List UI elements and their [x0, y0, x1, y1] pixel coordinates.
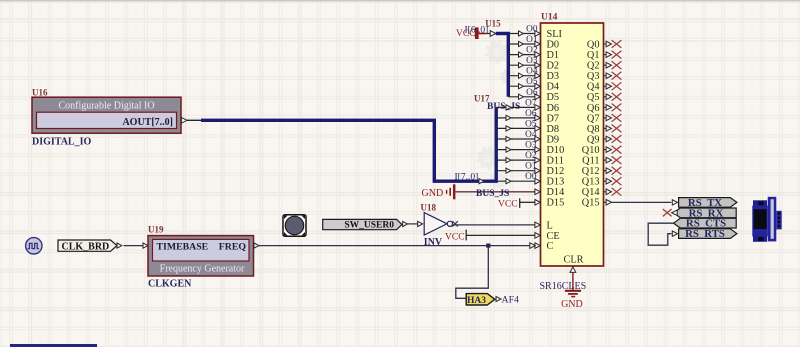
svg-text:D0: D0: [547, 39, 560, 50]
svg-text:Q0: Q0: [587, 39, 600, 50]
svg-text:SLI: SLI: [547, 29, 563, 40]
svg-text:U16: U16: [32, 88, 48, 98]
svg-text:CLK_BRD: CLK_BRD: [62, 241, 110, 252]
svg-text:D4: D4: [547, 82, 560, 93]
svg-text:D13: D13: [547, 177, 565, 188]
svg-text:Q8: Q8: [587, 124, 600, 135]
svg-text:AF4: AF4: [502, 295, 520, 306]
svg-text:Q2: Q2: [587, 61, 600, 72]
svg-text:Q13: Q13: [582, 177, 600, 188]
svg-text:RS_RTS: RS_RTS: [685, 228, 725, 240]
svg-text:D6: D6: [547, 103, 560, 114]
svg-text:C: C: [547, 241, 554, 252]
svg-text:VCC: VCC: [445, 233, 465, 243]
svg-text:D5: D5: [547, 92, 560, 103]
svg-text:D2: D2: [547, 61, 560, 72]
svg-text:GND: GND: [561, 299, 583, 310]
svg-text:D7: D7: [547, 113, 560, 124]
svg-text:D8: D8: [547, 124, 560, 135]
svg-text:D15: D15: [547, 198, 565, 209]
svg-text:CLKGEN: CLKGEN: [148, 279, 192, 290]
svg-text:SW_USER0: SW_USER0: [344, 221, 394, 231]
svg-text:I[6..0]: I[6..0]: [465, 25, 489, 35]
svg-text:U14: U14: [541, 13, 558, 23]
svg-text:Configurable Digital IO: Configurable Digital IO: [58, 100, 154, 111]
svg-text:D10: D10: [547, 145, 565, 156]
svg-text:Q3: Q3: [587, 71, 600, 82]
svg-text:Q4: Q4: [587, 82, 600, 93]
svg-text:VCC: VCC: [498, 200, 518, 210]
svg-text:Q12: Q12: [582, 166, 600, 177]
svg-text:Q1: Q1: [587, 50, 600, 61]
svg-text:HA3: HA3: [467, 296, 486, 306]
svg-text:D3: D3: [547, 71, 560, 82]
svg-text:Q10: Q10: [582, 145, 600, 156]
svg-text:Frequency Generator: Frequency Generator: [160, 264, 245, 275]
svg-text:Q15: Q15: [582, 198, 600, 209]
svg-text:L: L: [547, 220, 553, 231]
svg-text:Q7: Q7: [587, 113, 600, 124]
svg-text:Q14: Q14: [582, 187, 600, 198]
svg-text:Q5: Q5: [587, 92, 600, 103]
svg-text:U18: U18: [421, 203, 437, 213]
svg-text:D12: D12: [547, 166, 565, 177]
svg-text:Q11: Q11: [582, 156, 599, 167]
svg-text:U19: U19: [148, 225, 164, 235]
svg-text:GND: GND: [422, 188, 444, 199]
svg-text:BUS_JS: BUS_JS: [476, 189, 509, 199]
svg-text:DIGITAL_IO: DIGITAL_IO: [32, 136, 91, 147]
svg-text:TIMEBASE: TIMEBASE: [157, 241, 209, 252]
svg-text:I[7..0]: I[7..0]: [455, 172, 479, 182]
svg-text:D9: D9: [547, 134, 560, 145]
svg-text:Q9: Q9: [587, 134, 600, 145]
svg-text:D1: D1: [547, 50, 560, 61]
svg-text:CLR: CLR: [563, 255, 583, 266]
svg-text:AOUT[7..0]: AOUT[7..0]: [122, 117, 173, 128]
svg-text:D14: D14: [547, 187, 565, 198]
svg-text:Q6: Q6: [587, 103, 600, 114]
svg-text:INV: INV: [424, 237, 443, 248]
svg-text:D11: D11: [547, 156, 564, 167]
svg-text:FREQ: FREQ: [219, 241, 247, 252]
